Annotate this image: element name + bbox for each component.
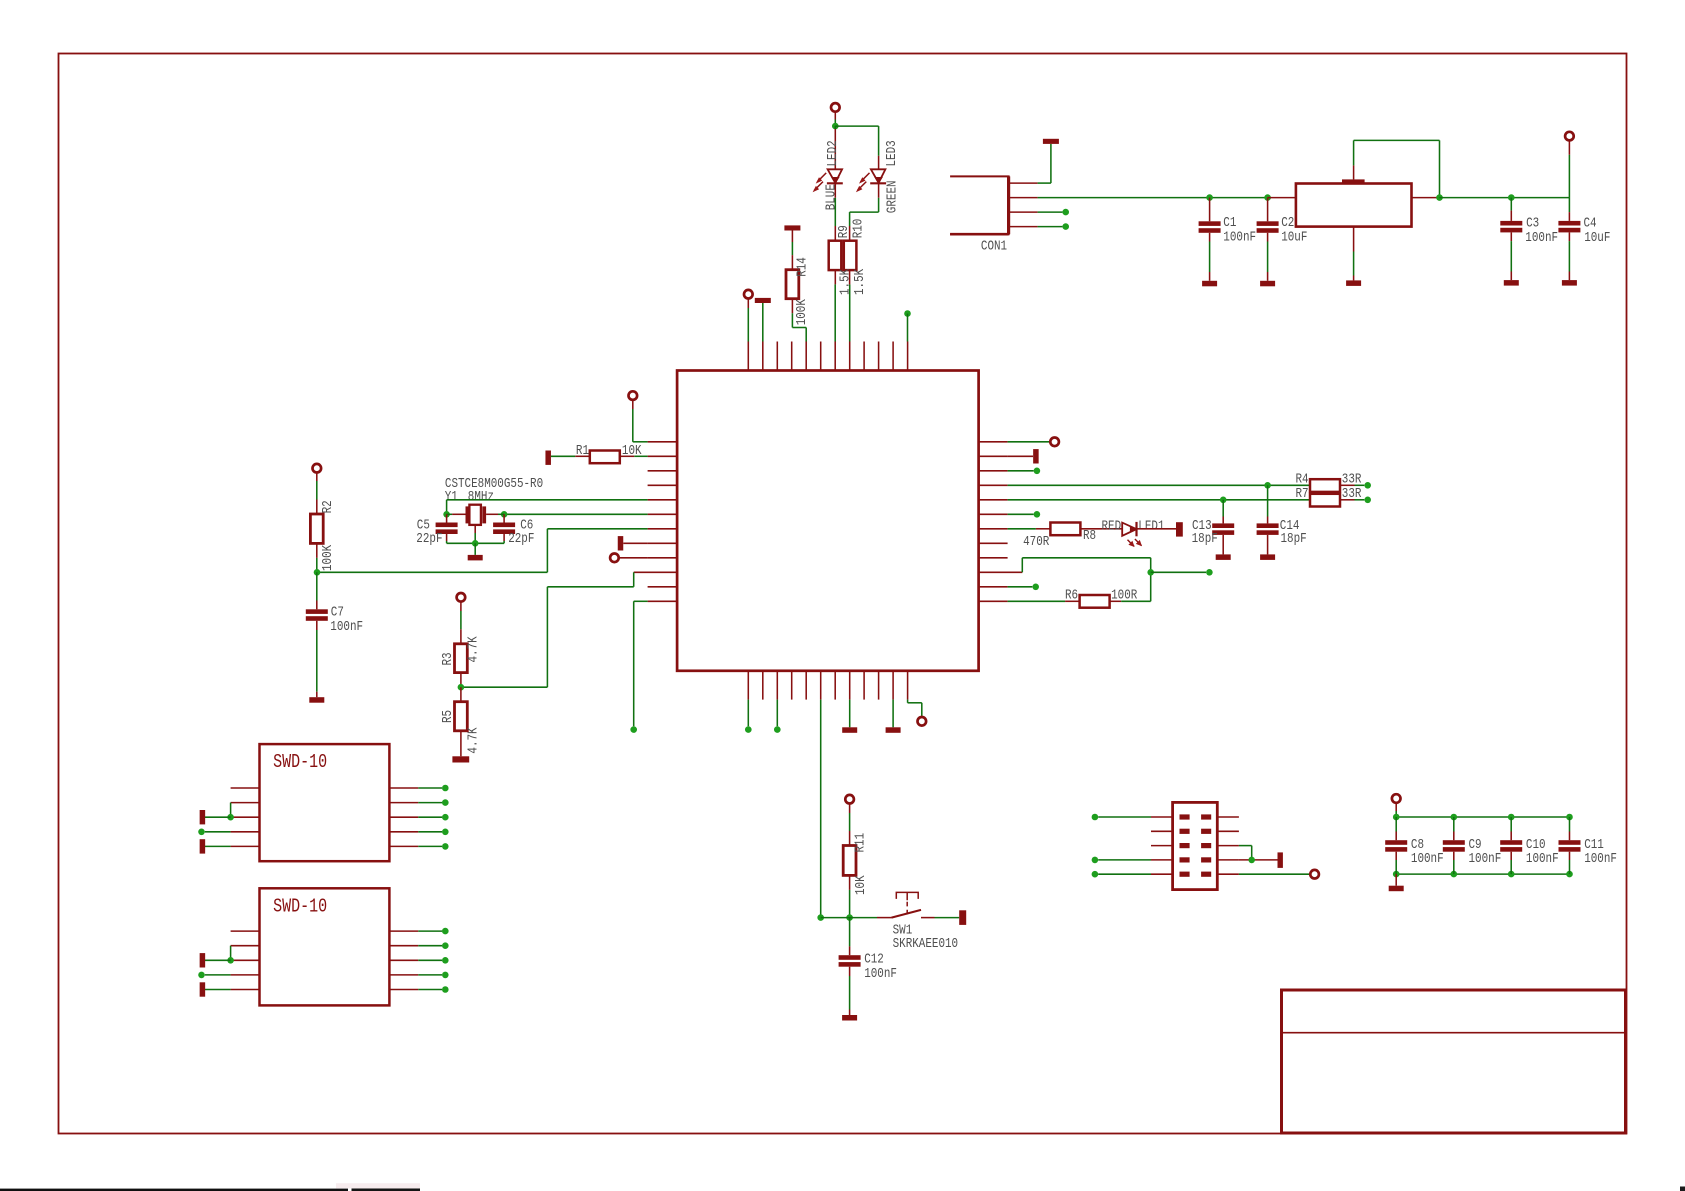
wire [849,918,851,947]
led LED1 cathode pin [1137,528,1177,530]
junction R11 SW1 [846,914,853,921]
supply pin left of mcu [629,391,638,400]
led LED1 anode wire [1080,528,1122,530]
wire [1395,803,1397,811]
svg-text:1.5K: 1.5K [852,268,868,295]
wire to gnd [1353,276,1355,281]
label LED1 name [1138,518,1164,534]
wire [623,542,647,544]
svg-text:R9: R9 [836,225,852,238]
junction Y1 left [443,511,450,518]
svg-text:470R: 470R [1023,534,1050,550]
capacitor C6 top pin [503,514,505,522]
svg-text:CON1: CON1 [981,238,1007,254]
mcu left pin row 8 [648,542,678,544]
ground C7 [309,697,324,703]
label C2 value [1281,229,1307,245]
wire to gnd [316,692,318,698]
svg-text:R5: R5 [440,710,456,723]
label C12 name [864,951,884,967]
mcu top pin 4 [791,342,793,371]
net end node [745,726,752,733]
label R9 value 1.5K [837,268,853,295]
connector SWD-10 #1 left pin 4 [231,831,260,833]
wire [1267,485,1269,516]
resistor R6 right pin [1110,600,1122,602]
label C13 value 18pF [1192,531,1218,547]
mcu right pin row 12 [979,600,1008,602]
label R2 value 100K [320,544,336,571]
label RED [1102,518,1122,534]
label R6 name [1065,588,1078,604]
wire [1209,242,1211,273]
wire [316,558,318,572]
wire [1510,817,1512,832]
capacitor C2 bottom pin [1267,233,1269,242]
ground C12 [842,1015,857,1021]
junction C2 [1264,194,1271,201]
junction [832,123,839,130]
svg-text:SKRKAEE010: SKRKAEE010 [893,936,958,952]
mcu left pin row 2 [648,455,678,457]
net end node [442,799,449,806]
mcu right pin row 11 [979,586,1008,588]
resistor R1 right pin [620,455,635,457]
mcu right pin row 6 [979,513,1008,515]
label C3 value [1525,230,1558,246]
connector JP1 right pin 3 [1217,845,1239,847]
wire [1098,859,1151,861]
led LED1 triangle [1122,523,1136,536]
wire [460,602,462,611]
mcu top pin 5 [805,342,807,371]
mcu right pin row 5 [979,499,1008,501]
connector JP1 left pad 5 [1180,872,1190,877]
label C5 value 22pF [416,531,442,547]
svg-text:CSTCE8M00G55-R0: CSTCE8M00G55-R0 [445,476,543,492]
wire anode LED2 [834,126,836,129]
wire [1569,860,1571,874]
label R1 name [576,443,589,459]
wire [1008,499,1310,501]
wire [498,513,504,515]
wire [1568,241,1570,271]
wire [849,700,851,728]
wire [418,845,442,847]
wire [849,813,851,831]
label R8 name [1083,528,1096,544]
capacitor C10 bottom pin [1510,852,1512,860]
mcu left pin row 9 [648,557,678,559]
wire [907,314,909,342]
wire [546,587,548,687]
connector JP1 left pad 2 [1180,829,1190,834]
connector JP1 left pad 1 [1180,814,1190,819]
capacitor C14 top pin [1267,517,1269,524]
svg-text:1.5K: 1.5K [837,268,853,295]
wire 3V3 net [1440,197,1570,199]
wire [418,959,442,961]
connector SWD-10 #1 left pin 2 [231,802,260,804]
svg-text:100nF: 100nF [330,619,363,635]
net end node [1062,209,1069,216]
wire to gnd [1267,272,1269,281]
label C3 name [1526,215,1539,231]
svg-text:R4: R4 [1296,471,1309,487]
mcu left pin row 10 long [634,571,677,573]
mcu top pin 11 [892,342,894,371]
capacitor C11 top pin [1569,832,1571,841]
svg-text:BLUE: BLUE [823,184,839,210]
capacitor C13 [1212,523,1234,528]
wire [1121,600,1151,602]
wire [834,198,836,226]
mcu top pin 1 [747,342,749,371]
resistor R11 body [843,846,856,876]
net stub SWD#2 row3 [200,953,206,967]
led LED2 cathode pin [834,183,836,198]
wire [850,211,879,213]
svg-text:C4: C4 [1584,215,1597,231]
svg-text:22pF: 22pF [416,531,442,547]
connector SWD-10 #2 right pin 3 [389,959,418,961]
svg-text:C1: C1 [1223,215,1236,231]
label C10 name [1526,837,1546,853]
supply pin top left of mcu [744,290,753,299]
svg-text:100nF: 100nF [864,966,897,982]
connector SWD-10 #2 right pin 1 [389,930,418,932]
wire [418,787,442,789]
mcu left pin row 12 [648,600,678,602]
label R3 name [440,652,456,665]
wire [835,125,878,127]
capacitor C14 [1257,523,1279,528]
resonator Y1 right electrode [482,506,486,523]
wire [503,541,505,543]
junction C10 bottom [1508,871,1515,878]
ground C8 rail [1389,886,1404,892]
corner mark [1680,1187,1685,1191]
wire [1008,513,1034,515]
ground mcu col8 [842,727,857,733]
wire [1038,226,1063,228]
junction Y1 right [501,511,508,518]
capacitor C7 bottom pin [316,621,318,630]
led LED3 anode pin [878,156,880,170]
svg-text:100nF: 100nF [1469,851,1502,867]
junction C14 top [1264,482,1271,489]
connector JP1 right pad 5 [1201,872,1211,877]
label SWD-10 #1 [273,753,327,774]
wire from mcu pin col6 [820,700,822,918]
wire [446,541,448,543]
net end node [442,829,449,836]
label GREEN [884,180,900,213]
label R14 value 100K [794,299,810,326]
net end node [774,726,781,733]
wire [747,308,749,342]
junction [227,957,234,964]
net end node [442,986,449,993]
svg-text:18pF: 18pF [1281,531,1307,547]
net stub right of SW1 [959,910,966,925]
resonator Y1 left pin [452,513,465,515]
ground C13 [1216,554,1231,560]
wire VIN net [1038,197,1268,199]
ground C14 [1260,554,1275,560]
mcu bottom pin 6 [820,671,822,700]
wire [447,542,505,544]
wire [460,611,462,629]
wire [1239,845,1252,847]
wire [1353,140,1355,165]
connector SWD-10 #1 left pin 1 [231,787,260,789]
resistor R6 left pin [1065,600,1080,602]
wire [791,313,793,327]
connector SWD-10 #1 right pin 2 [389,802,418,804]
junction output [1436,194,1443,201]
label R5 value 4.7K [465,727,481,754]
resonator Y1 gnd pin [474,524,476,533]
connector SWD-10 #1 left pin 3 [231,816,260,818]
svg-text:10uF: 10uF [1584,230,1610,246]
capacitor C5 bottom pin [446,534,448,541]
led LED2 triangle [828,169,843,183]
wire [935,917,960,919]
mcu top pin 6 [820,342,822,371]
led LED1 cathode bar [1135,522,1137,536]
net stub right of LED1 [1176,522,1183,536]
wire [619,557,647,559]
net end node [1364,482,1371,489]
mcu bottom pin 10 [878,671,880,700]
wire XTAL2 row [504,513,647,515]
capacitor C12 bottom pin [849,967,851,976]
net end node [630,726,637,733]
wire [1008,441,1050,443]
net end node [1062,223,1069,230]
net stub SWD#2 row5 [200,982,206,996]
connector JP1 left pin 2 [1151,830,1173,832]
svg-text:R2: R2 [320,500,336,513]
svg-text:18pF: 18pF [1192,531,1218,547]
mcu bottom pin 1 [747,671,749,700]
capacitor C7 top pin [316,601,318,610]
label C4 name [1584,215,1597,231]
mcu bottom pin 9 [863,671,865,700]
resistor R6 body [1080,595,1110,608]
wire [791,231,793,243]
wire [632,400,634,409]
svg-text:10K: 10K [853,875,869,895]
wire [878,198,880,212]
capacitor C13 bottom pin [1222,535,1224,555]
mcu left pin row 7 [648,528,678,530]
ground R5 [452,756,469,762]
label SW1 name [893,922,913,938]
label C1 name [1223,215,1236,231]
connector SWD-10 #2 left pin 4 [231,974,260,976]
wire [230,946,232,961]
wire anode LED3 [878,126,880,156]
label R14 name [794,257,810,277]
led LED3 triangle [871,169,886,183]
connector SWD-10 #2 right pin 5 [389,989,418,991]
wire [762,303,764,342]
net end node [1092,814,1099,821]
ic U2 regulator body [1296,184,1412,227]
mcu right pin row 1 [979,441,1008,443]
label C5 name [417,517,430,533]
resistor R3 body [455,644,468,673]
capacitor C1 top pin [1209,198,1211,222]
wire [892,700,894,728]
svg-text:SWD-10: SWD-10 [273,753,327,774]
taskbar tint [336,1183,420,1188]
label R6 value 100R [1111,588,1138,604]
wire [632,409,634,442]
wire [418,945,442,947]
net stub row8 [618,536,624,550]
wire [546,529,548,573]
ground C2 [1260,281,1275,287]
label C6 value 22pF [508,531,534,547]
capacitor C4 [1558,221,1580,226]
svg-text:R8: R8 [1083,528,1096,544]
wire [205,816,231,818]
svg-text:100K: 100K [320,544,336,571]
connector JP1 right pin 1 [1217,816,1239,818]
wire to gnd [1395,874,1397,886]
net end node [198,829,205,836]
resistor R3 bottom pin [460,673,462,688]
wire [205,959,231,961]
resistor R14 top pin [791,255,793,270]
label BLUE [823,184,839,210]
connector JP1 right pin 5 [1217,873,1239,875]
connector SWD-10 #1 right pin 5 [389,845,418,847]
wire [447,513,453,515]
capacitor C11 [1559,840,1581,845]
wire [792,327,806,329]
connector SWD-10 #2 right pin 4 [389,974,418,976]
switch SW1 right contact [921,917,935,919]
connector JP1 right pad 1 [1201,814,1211,819]
svg-text:100nF: 100nF [1411,851,1444,867]
mcu right pin row 9 [979,557,1008,559]
ground mcu col11 [886,727,901,733]
label C9 value [1469,851,1502,867]
wire [1453,817,1455,832]
label C1 value [1223,229,1256,245]
connector SWD-10 #1 left pin 5 [231,845,260,847]
wire [633,441,648,443]
wire [1150,558,1152,602]
wire [834,284,836,341]
capacitor C6 bottom pin [503,534,505,541]
mcu bottom pin 3 [776,671,778,700]
svg-text:R6: R6 [1065,588,1078,604]
connector JP1 right pin 4 [1217,859,1239,861]
label SWD-10 #2 [273,897,327,918]
label C2 name [1281,215,1294,231]
connector JP1 left pin 1 [1151,816,1173,818]
wire [1098,873,1151,875]
svg-text:8MHz: 8MHz [468,489,494,505]
label C11 name [1584,837,1604,853]
wire [547,586,633,588]
connector SWD-10 #2 left pin 5 [231,989,260,991]
capacitor C8 [1385,840,1407,845]
wire [230,803,232,818]
net end node [1034,468,1041,475]
label R10 name [850,219,866,239]
label C14 value 18pF [1281,531,1307,547]
supply pin +3V3 top [831,103,840,112]
junction [1248,857,1255,864]
wire [791,242,793,255]
mcu top pin 2 [762,342,764,371]
led LED2 cathode bar [827,182,843,184]
wire [849,976,851,1010]
title block [1282,990,1626,1133]
resistor R14 bottom pin [791,299,793,314]
resistor R8 left pin [1036,528,1051,530]
label R1 value 10K [622,443,642,459]
label R11 name [852,833,868,853]
resistor R9 bottom pin [834,270,836,284]
resistor R3 top pin [460,629,462,644]
wire [1222,500,1224,517]
wire [1354,139,1440,141]
svg-text:22pF: 22pF [508,531,534,547]
svg-text:R7: R7 [1296,486,1309,502]
wire [1439,140,1441,197]
mcu right pin row 3 [979,470,1008,472]
svg-text:100K: 100K [794,299,810,326]
junction [1147,569,1154,576]
label R4 name [1296,471,1309,487]
resistor R5 top pin [460,687,462,702]
wire [316,473,318,481]
svg-text:100nF: 100nF [1584,851,1617,867]
wire [921,703,923,717]
wire [205,974,231,976]
mcu left pin row 3 [648,470,678,472]
wire [547,528,647,530]
resonator Y1 body [469,505,481,525]
connector JP1 right pad 3 [1201,843,1211,848]
net stub SWD#1 row5 [200,839,206,853]
wire [1038,211,1063,213]
regulator U2 input pin [1268,197,1296,199]
capacitor C8 bottom pin [1395,852,1397,860]
capacitor C4 bottom pin [1568,232,1570,241]
mcu bottom pin 2 [762,671,764,700]
label C6 name [520,517,533,533]
supply pin top right [1565,132,1574,141]
net end node [1034,511,1041,518]
wire [1008,586,1033,588]
wire [1050,144,1052,183]
capacitor C10 [1500,840,1522,845]
mcu left pin row 6 [648,513,678,515]
connector SWD-10 #2 left pin 1 [231,930,260,932]
wire [316,572,318,600]
ic U2 top tab [1342,179,1365,183]
regulator U2 output pin [1412,197,1440,199]
net end node [1206,569,1213,576]
